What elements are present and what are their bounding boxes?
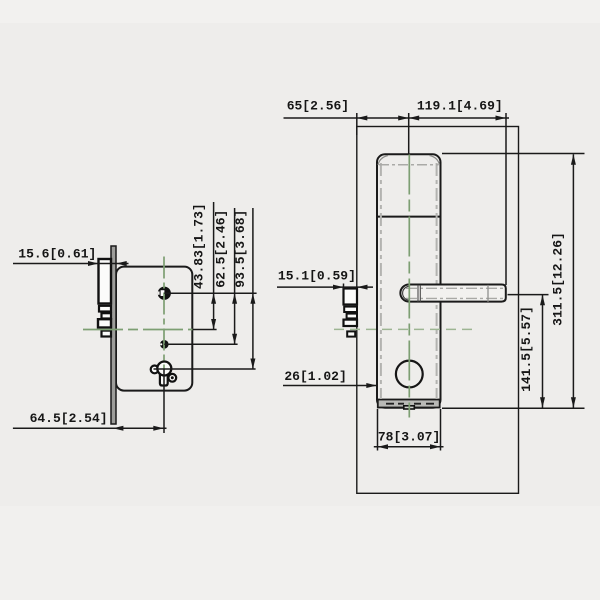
vdim 93.5: [252, 208, 254, 369]
vertical centerline of plate: [408, 155, 410, 418]
78 arrows: [378, 444, 389, 449]
ext: plate bottom right: [442, 407, 585, 409]
door-edge latch: step 2: [344, 307, 357, 312]
door-edge latch: step 3: [347, 314, 357, 319]
141.5 arrows: [540, 295, 545, 306]
ext: handle axis right: [508, 294, 549, 296]
cylinder hole circle: [396, 361, 423, 388]
arrows, right view: [333, 116, 576, 450]
latch step 2: [99, 306, 111, 312]
connector from small hole: [164, 343, 237, 345]
handle neck marks: [418, 285, 420, 302]
svg-text:43.83[1.73]: 43.83[1.73]: [191, 203, 206, 289]
svg-text:26[1.02]: 26[1.02]: [284, 369, 346, 384]
svg-text:64.5[2.54]: 64.5[2.54]: [30, 411, 108, 426]
93.5 arrows: [250, 293, 255, 304]
vdim 43.83: [213, 202, 215, 330]
green centerlines, left view: [83, 257, 193, 370]
cap band hidden dashes: [386, 403, 434, 405]
horizontal centerline: [83, 329, 193, 331]
bottom cap tab: [404, 406, 415, 409]
119.1 arrows: [409, 116, 420, 121]
dim line 64.5: [13, 427, 167, 429]
right ear: [168, 374, 176, 382]
dim line 15.1: [277, 286, 373, 288]
top dim line (65 / 119.1): [284, 117, 510, 119]
top cap inner arcs: [378, 156, 388, 166]
hidden line: plate left: [380, 163, 382, 399]
64.5 arrows: [113, 426, 124, 431]
62.5 arrows: [232, 293, 237, 304]
door-edge latch: bolt head: [344, 289, 358, 305]
ext: plate centerline up: [408, 113, 410, 154]
svg-text:141.5[5.57]: 141.5[5.57]: [519, 306, 534, 392]
door outline rect: [357, 127, 519, 494]
connector from keyhole: [154, 368, 256, 370]
svg-text:119.1[4.69]: 119.1[4.69]: [417, 99, 503, 114]
svg-text:78[3.07]: 78[3.07]: [378, 429, 440, 444]
plate bottom cap band: [378, 400, 440, 408]
15.6 arrows: [88, 261, 99, 266]
connector at centerline right: [193, 329, 217, 331]
leader 26: [283, 385, 376, 387]
65 arrows: [357, 116, 368, 121]
svg-text:15.1[0.59]: 15.1[0.59]: [278, 269, 356, 284]
vdim 141.5: [542, 295, 544, 408]
latch step 3: [102, 313, 112, 318]
latch bolt head: [99, 259, 112, 304]
svg-text:93.5[3.68]: 93.5[3.68]: [233, 210, 248, 288]
26 leader arrow: [366, 383, 377, 388]
svg-text:15.6[0.61]: 15.6[0.61]: [18, 247, 96, 262]
escutcheon plate: [377, 154, 441, 408]
latch step 4 (deadbolt): [98, 319, 111, 327]
handle (lever): [400, 285, 505, 302]
dim line 78: [374, 446, 444, 448]
arrows, left view: [88, 261, 255, 431]
vertical centerline: [163, 257, 165, 370]
dim line 15.6: [13, 263, 129, 265]
handle hidden edge lines: [406, 287, 503, 289]
15.1 arrows: [333, 285, 344, 290]
connector from hub: [164, 292, 256, 294]
small fixing hole (filled circle, middle): [160, 340, 169, 349]
hidden line: plate right: [436, 163, 438, 399]
311.5 arrows: [571, 154, 576, 165]
vdim 311.5: [572, 154, 574, 407]
ext: door left edge up: [356, 113, 358, 135]
vdim 62.5: [234, 208, 236, 344]
lock body (rounded rect): [116, 267, 192, 391]
door-edge latch: aux pin: [347, 331, 355, 336]
svg-text:65[2.56]: 65[2.56]: [287, 99, 349, 114]
ext line keyhole center down: [163, 369, 165, 433]
spindle hub (filled circle, top): [158, 287, 171, 300]
svg-text:62.5[2.46]: 62.5[2.46]: [213, 210, 228, 288]
green centerlines, right view: [334, 155, 474, 418]
hidden line: top horizontal: [379, 164, 439, 166]
door-edge latch: step 4: [344, 320, 358, 326]
handle cap inner arc: [403, 286, 410, 300]
cylinder profile (keyhole shape, bottom): [151, 362, 177, 386]
dim 78: ext right: [440, 409, 442, 451]
faceplate (vertical bar): [111, 246, 116, 424]
plate top seam: [377, 216, 441, 218]
svg-text:311.5[12.26]: 311.5[12.26]: [551, 232, 566, 326]
left ear: [151, 366, 159, 374]
dim 78: ext left: [377, 409, 379, 451]
handle bend mark: [487, 285, 489, 302]
main circle: [157, 362, 171, 376]
ext: plate top right: [442, 153, 585, 155]
ext for 15.1 latch front: [343, 284, 345, 290]
stem: [160, 370, 168, 386]
43.83 arrows: [211, 293, 216, 304]
auxiliary pin below centerline: [102, 331, 112, 337]
ext: handle tip: [505, 113, 507, 285]
horizontal centerline (lock axis): [334, 328, 474, 330]
